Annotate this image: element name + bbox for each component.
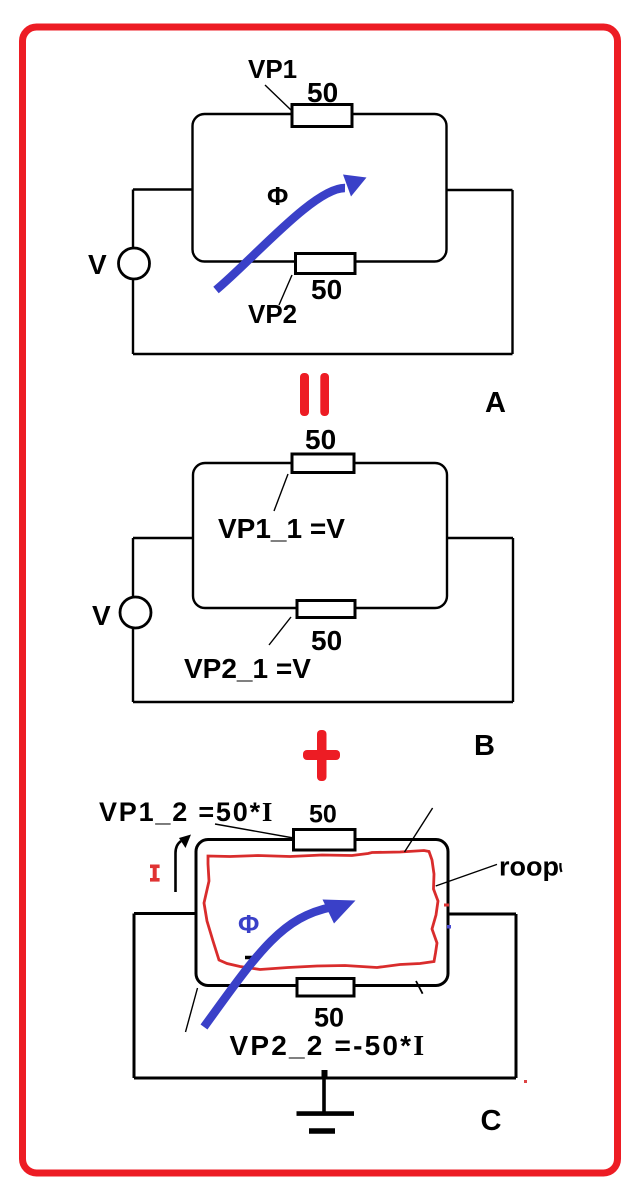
svg-text:V: V [92,600,111,631]
svg-text:VP1_2 =50*I: VP1_2 =50*I [99,797,274,827]
svg-text:Φ: Φ [267,181,288,211]
svg-text:VP1_1 =V: VP1_1 =V [218,513,345,544]
svg-text:50: 50 [314,1003,344,1033]
svg-text:roop: roop [499,852,559,882]
svg-text:V: V [88,249,107,280]
svg-text:50: 50 [309,801,337,829]
svg-text:50: 50 [307,77,338,108]
svg-text:VP2: VP2 [248,299,297,329]
svg-text:B: B [474,730,495,762]
svg-text:Φ: Φ [238,909,259,939]
svg-text:C: C [481,1105,502,1137]
svg-text:50: 50 [311,625,342,656]
svg-text:VP1: VP1 [248,54,297,84]
svg-text:VP2_1 =V: VP2_1 =V [184,653,311,684]
svg-text:A: A [485,387,506,419]
svg-text:VP2_2 =-50*I: VP2_2 =-50*I [230,1030,427,1062]
svg-text:50: 50 [311,274,342,305]
svg-text:50: 50 [305,424,336,455]
